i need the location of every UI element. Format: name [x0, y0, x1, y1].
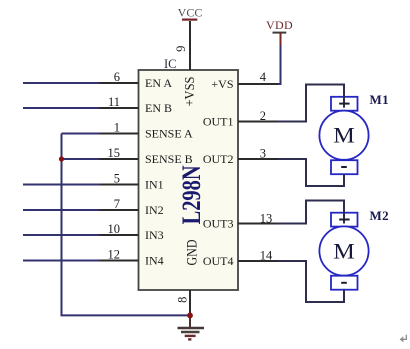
svg-text:13: 13 — [260, 212, 273, 226]
svg-text:SENSE A: SENSE A — [145, 127, 193, 141]
svg-text:M1: M1 — [370, 92, 390, 107]
svg-text:15: 15 — [108, 146, 121, 160]
svg-text:SENSE B: SENSE B — [145, 152, 193, 166]
svg-text:OUT1: OUT1 — [203, 115, 234, 129]
svg-text:12: 12 — [108, 248, 121, 262]
svg-text:14: 14 — [260, 249, 273, 263]
svg-text:EN A: EN A — [145, 76, 172, 90]
svg-text:IN2: IN2 — [145, 203, 164, 217]
svg-text:3: 3 — [260, 147, 266, 161]
svg-text:VCC: VCC — [178, 6, 203, 20]
svg-text:IN1: IN1 — [145, 178, 164, 192]
svg-text:L298N: L298N — [177, 165, 206, 224]
svg-text:VDD: VDD — [266, 18, 293, 32]
svg-text:EN B: EN B — [145, 101, 172, 115]
svg-text:4: 4 — [260, 70, 267, 84]
svg-text:1: 1 — [114, 121, 120, 135]
svg-text:GND: GND — [185, 239, 201, 265]
svg-text:6: 6 — [114, 70, 120, 84]
svg-text:M2: M2 — [370, 208, 390, 223]
svg-text:+VSS: +VSS — [183, 77, 198, 107]
svg-text:5: 5 — [114, 172, 120, 186]
svg-text:OUT3: OUT3 — [203, 217, 234, 231]
svg-text:+VS: +VS — [211, 77, 233, 91]
svg-text:10: 10 — [108, 222, 121, 236]
svg-text:7: 7 — [114, 197, 120, 211]
svg-text:9: 9 — [174, 46, 188, 52]
svg-text:OUT4: OUT4 — [203, 254, 234, 268]
svg-text:M: M — [333, 123, 355, 148]
svg-text:M: M — [333, 238, 355, 263]
svg-text:IC: IC — [164, 57, 177, 71]
svg-text:8: 8 — [175, 297, 189, 303]
svg-text:IN4: IN4 — [145, 254, 164, 268]
svg-text:OUT2: OUT2 — [203, 152, 234, 166]
svg-text:11: 11 — [108, 95, 120, 109]
svg-text:IN3: IN3 — [145, 228, 164, 242]
svg-text:2: 2 — [260, 109, 266, 123]
